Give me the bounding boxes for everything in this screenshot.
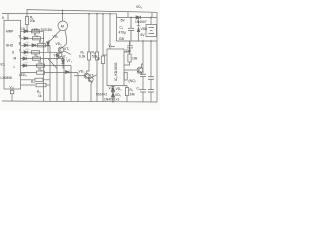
svg-text:7: 7	[19, 49, 21, 53]
svg-text:R₃: R₃	[34, 33, 38, 37]
svg-text:(NC): (NC)	[129, 79, 136, 83]
wire R5 column	[87, 14, 89, 73]
capacitor C7	[148, 77, 154, 79]
wire column x64	[63, 59, 65, 102]
wire column x71	[70, 66, 72, 102]
wire pin row 8	[21, 79, 51, 81]
svg-text:LED₁ 2001D#: LED₁ 2001D#	[32, 28, 52, 32]
resistor R1	[25, 14, 28, 32]
resistor R7a	[37, 64, 45, 67]
wire pin row 2	[21, 37, 44, 39]
svg-text:VT₇: VT₇	[89, 74, 95, 78]
resistor R2	[32, 30, 40, 33]
svg-text:VD₄: VD₄	[136, 5, 143, 9]
svg-text:C₄: C₄	[120, 26, 124, 30]
svg-text:Vₛₛ: Vₛₛ	[10, 85, 15, 89]
svg-text:Vₘₘ: Vₘₘ	[109, 44, 115, 48]
svg-text:VD₆: VD₆	[115, 93, 122, 97]
wire cap column C3	[142, 41, 144, 102]
LED LED4 symbol	[23, 62, 28, 67]
wire IC2 left stub	[103, 54, 107, 56]
zener VD5b	[111, 86, 114, 91]
wire pin row 3	[21, 44, 51, 46]
svg-text:VD₅: VD₅	[116, 87, 123, 91]
resistor R3	[33, 37, 41, 40]
capacitor C6	[124, 41, 133, 52]
svg-text:VD₅: VD₅	[54, 53, 61, 57]
svg-text:VD₃: VD₃	[56, 42, 63, 46]
resistor R10 bottom-left	[21, 83, 51, 86]
svg-text:10k: 10k	[132, 57, 138, 61]
svg-text:1k: 1k	[97, 57, 101, 61]
resistor R9a	[35, 78, 43, 81]
svg-text:9014×2: 9014×2	[96, 92, 107, 96]
wire Vss node	[113, 85, 127, 88]
svg-text:VD8: VD8	[141, 27, 148, 31]
resistor R12b NC pin	[124, 72, 127, 80]
diode VD5c center vertical	[62, 57, 65, 69]
wire motor leg right	[62, 30, 66, 48]
svg-text:20k: 20k	[30, 19, 36, 23]
wire column x57	[56, 52, 58, 101]
diode VD4 1N4007	[117, 12, 158, 19]
wire column x103	[102, 14, 104, 102]
wire motor leg left	[48, 30, 61, 42]
resistor R4	[38, 44, 46, 47]
transistor VT7	[88, 75, 97, 102]
capacitor C8 lower	[148, 90, 154, 92]
svg-text:8: 8	[19, 42, 21, 46]
svg-text:M: M	[61, 24, 64, 28]
svg-text:1N4007: 1N4007	[135, 20, 147, 24]
battery GB	[146, 17, 157, 36]
LED LED3 symbol	[23, 55, 28, 60]
wire pin row 6	[21, 65, 72, 67]
svg-text:Vₛₛ: Vₛₛ	[109, 86, 114, 90]
wire IC2 right pin	[124, 69, 137, 71]
wire PSU bottom	[117, 40, 158, 42]
IC1 box	[4, 20, 21, 89]
resistor R11 on x103	[101, 56, 104, 64]
resistor R5a	[32, 51, 40, 54]
svg-text:R₄: R₄	[39, 40, 43, 44]
zener VD6b	[111, 91, 114, 101]
svg-text:5: 5	[2, 16, 4, 20]
diode VD3	[32, 44, 36, 47]
transistor VT2	[48, 52, 62, 68]
wire pin row 4	[21, 51, 58, 53]
wire bottom rail	[2, 101, 157, 102]
wire right edge	[156, 12, 158, 102]
wire column x50	[49, 45, 51, 101]
svg-text:GB: GB	[119, 37, 125, 41]
resistor R6	[95, 52, 98, 60]
svg-text:SHO: SHO	[6, 44, 14, 48]
svg-text:R₄: R₄	[35, 53, 39, 57]
transistor VT1	[58, 47, 71, 55]
svg-text:VD₁: VD₁	[53, 35, 60, 39]
svg-text:33n: 33n	[125, 49, 131, 53]
svg-text:470μ: 470μ	[119, 31, 127, 35]
svg-text:M: M	[14, 57, 17, 61]
resistor R7	[125, 86, 128, 102]
resistor R9 10k	[124, 41, 131, 65]
svg-text:VT₅: VT₅	[67, 59, 73, 63]
svg-text:VT₁: VT₁	[64, 47, 70, 51]
LED LED2 symbol	[24, 49, 29, 54]
resistor R8a	[37, 71, 45, 74]
wire rail to IC1 top	[7, 14, 9, 21]
wire pin row 1	[21, 30, 44, 32]
pin box 12	[10, 90, 13, 93]
wire motor drop	[62, 10, 64, 21]
svg-text:-5V: -5V	[120, 19, 126, 23]
svg-text:VD₅: VD₅	[79, 70, 86, 74]
capacitor C3	[140, 74, 146, 76]
zener VD8	[137, 17, 140, 41]
wire column x78	[77, 73, 79, 102]
diode VD1 row1	[24, 30, 28, 33]
wire lower top rail	[2, 14, 117, 42]
diode VD6 center	[66, 71, 70, 74]
capacitor C4	[128, 17, 134, 41]
IC2 box	[107, 49, 124, 86]
svg-text:9: 9	[19, 35, 21, 39]
wire Vss lead	[11, 89, 13, 101]
svg-text:1k: 1k	[38, 94, 42, 98]
transistor VT5	[74, 73, 89, 78]
wire R6 column	[96, 14, 98, 102]
wire pin row 7	[21, 72, 79, 74]
resistor R6a	[33, 57, 41, 60]
svg-text:L: L	[14, 65, 16, 69]
svg-text:6.3k: 6.3k	[79, 55, 86, 59]
svg-text:IC₂ KD-5603: IC₂ KD-5603	[114, 62, 118, 81]
svg-text:MRP: MRP	[6, 30, 14, 34]
svg-text:LX0806: LX0806	[1, 76, 13, 80]
motor M1	[58, 21, 68, 31]
zener VD2 left	[47, 42, 50, 53]
diode VD2 row2	[24, 37, 28, 40]
svg-text:LED₃: LED₃	[19, 73, 27, 77]
svg-text:24k: 24k	[130, 93, 136, 97]
wire Vcc drop	[109, 14, 111, 49]
junction dots	[43, 10, 152, 103]
transistor VT6	[137, 64, 143, 75]
wire pin row 5	[21, 58, 65, 60]
svg-text:1N4001×2: 1N4001×2	[104, 98, 119, 102]
wire cap column x151	[150, 41, 152, 102]
LED LED1 symbol	[24, 42, 29, 47]
svg-text:10: 10	[21, 27, 25, 31]
capacitor C5 lower	[140, 90, 146, 92]
svg-text:C₃: C₃	[137, 71, 141, 75]
wire upper top rail	[27, 10, 157, 14]
wire column x44	[43, 31, 45, 101]
resistor R5	[87, 52, 90, 60]
